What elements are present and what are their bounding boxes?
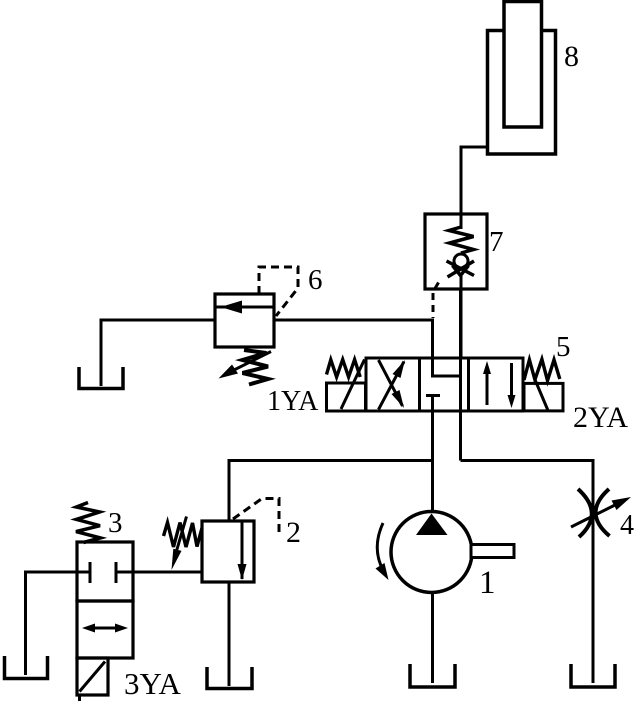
valve 6 spring: [243, 350, 269, 385]
valve 5 centre box A elbow: [433, 358, 461, 376]
valve 7 outlet line: [460, 275, 463, 358]
tank under valve 6: [79, 367, 123, 389]
valve 6 flow arrowhead: [221, 301, 243, 314]
svg-text:8: 8: [564, 40, 579, 73]
valve 3 double arrow: [86, 627, 124, 630]
tank under throttle: [571, 664, 615, 687]
cylinder 8 body: [488, 31, 556, 155]
wire valve 2 to tank: [228, 582, 231, 686]
valve 6 adjust arrow: [226, 352, 271, 375]
throttle valve U4 right arc: [596, 489, 610, 536]
wire cylinder to valve 7: [461, 147, 488, 216]
directional valve U5 body: [366, 358, 523, 411]
svg-text:3YA: 3YA: [124, 666, 181, 701]
wire valve 3 to valve 2: [133, 571, 202, 574]
pressure valve U2 box: [202, 521, 254, 582]
throttle 4 adjust arrow: [571, 504, 618, 528]
wire valve6 to tank: [101, 320, 215, 386]
valve 3 top box: [77, 542, 133, 601]
valve 7 inlet stub: [460, 214, 463, 229]
valve 5 divider left: [418, 358, 421, 411]
pump P1 circle: [391, 512, 472, 593]
tank under pump: [410, 664, 455, 687]
pump rotation arrow: [377, 523, 384, 572]
valve 2 spring: [164, 523, 203, 548]
svg-text:7: 7: [489, 226, 504, 258]
cylinder 8 plunger: [504, 2, 542, 128]
svg-text:1: 1: [479, 565, 496, 601]
wire P line pump to valve: [431, 398, 434, 514]
wire valve6 to node A: [274, 320, 433, 358]
valve U3 spring top: [76, 503, 100, 543]
valve 5 centre box blocked P: [426, 396, 440, 412]
pump triangle: [416, 514, 448, 536]
valve 5 right solenoid 2YA box: [524, 383, 563, 411]
valve 7 seat cross: [447, 261, 475, 277]
valve 5 left box cross arrows: [379, 360, 405, 410]
valve 3 drain stub: [78, 695, 81, 701]
valve 7 spring: [449, 227, 474, 253]
svg-text:3: 3: [108, 507, 123, 539]
tank under valve 3: [5, 656, 48, 679]
svg-text:1YA: 1YA: [267, 386, 319, 417]
wire supply rail left: [229, 461, 433, 522]
valve 6 pilot dashed: [259, 267, 298, 316]
valve 5 left solenoid 1YA box: [327, 383, 366, 411]
valve 2 adjust arrow: [177, 517, 187, 552]
valve 5 divider right: [467, 358, 470, 411]
valve 2 pilot dashed: [233, 499, 279, 538]
wire T line through valve: [459, 289, 462, 461]
sequence valve U7 box: [425, 214, 487, 289]
valve 3 bottom box: [77, 601, 133, 658]
svg-text:2: 2: [286, 516, 301, 549]
throttle valve U4 left arc: [578, 489, 592, 537]
relief valve U6 box: [215, 294, 274, 347]
valve 5 right box down arrow: [510, 363, 513, 402]
valve 2 flow line: [241, 521, 244, 579]
valve 5 right spring: [524, 359, 560, 380]
wire return rail right: [461, 461, 594, 684]
valve 2 flow arrowhead: [238, 564, 247, 580]
valve 3 blocked ports: [77, 562, 133, 583]
valve 7 seat point: [453, 266, 469, 276]
tank under valve 2: [207, 667, 252, 689]
svg-text:4: 4: [620, 510, 634, 541]
svg-text:6: 6: [308, 264, 323, 296]
valve 7 pilot dashed: [433, 283, 439, 319]
valve 7 ball: [454, 254, 468, 268]
svg-text:2YA: 2YA: [573, 401, 628, 434]
pump outlet port: [471, 545, 514, 558]
valve 3 solenoid 3YA box: [77, 658, 108, 695]
svg-text:5: 5: [556, 331, 571, 363]
wire pump to tank: [431, 593, 434, 684]
valve 5 left spring: [327, 360, 361, 378]
wire valve 3 to tank: [26, 572, 78, 675]
valve 6 flow line: [215, 306, 274, 309]
valve 5 right box up arrow: [486, 366, 489, 405]
